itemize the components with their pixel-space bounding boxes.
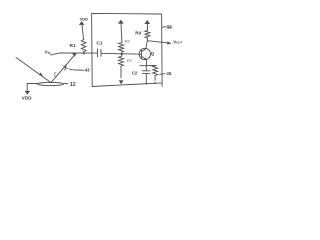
- tick marks on reflected ray (beam): [64, 64, 68, 70]
- transistor Q1 collector stroke: [142, 41, 148, 52]
- output label VOUT: [173, 39, 182, 44]
- svg-text:44: 44: [166, 25, 172, 31]
- svg-text:R3: R3: [127, 59, 132, 63]
- capacitor C2 (emitter bypass): [142, 66, 149, 84]
- power rail label VDD (bottom): [22, 96, 33, 101]
- svg-text:R2: R2: [125, 39, 130, 43]
- label 45: [166, 71, 171, 76]
- label C1: [96, 41, 102, 47]
- svg-text:43: 43: [85, 67, 91, 72]
- node junction dot at R1 bottom: [83, 52, 85, 54]
- svg-text:12: 12: [70, 82, 76, 88]
- VDD supply up-arrow (divider branch): [118, 20, 124, 43]
- output arrowhead: [167, 42, 171, 45]
- svg-text:VDD: VDD: [22, 96, 33, 101]
- svg-text:Vin: Vin: [45, 50, 51, 56]
- svg-text:E: E: [54, 71, 57, 76]
- label E (beam): [54, 71, 57, 76]
- svg-text:45: 45: [166, 71, 171, 76]
- transistor Q1 emitter stroke with arrow: [142, 56, 147, 60]
- leader to label 45: [160, 73, 165, 76]
- resistor R5 (emitter): [153, 66, 158, 81]
- node Vin label: [45, 50, 51, 56]
- label R1: [70, 43, 76, 49]
- svg-text:VDD: VDD: [80, 16, 89, 21]
- svg-text:C1: C1: [96, 41, 102, 47]
- label C2: [132, 71, 138, 76]
- power rail label VDD (top): [80, 16, 89, 21]
- optical element 12 (ellipse): [38, 82, 64, 85]
- svg-text:R1: R1: [70, 43, 76, 49]
- resistor R4 (collector load): [145, 30, 150, 40]
- leader to label 43: [70, 69, 84, 70]
- node junction dot divider/base: [121, 53, 123, 55]
- resistor R3 (lower divider): [119, 54, 124, 78]
- leader to label 44: [162, 26, 166, 29]
- node: C2 foot junction: [145, 83, 147, 85]
- capacitor C1 (coupling): [98, 49, 102, 57]
- lower supply down-arrow: [25, 91, 31, 95]
- wire: ellipse to lower supply: [27, 83, 38, 90]
- svg-text:VOUT: VOUT: [173, 39, 182, 44]
- wire: collector node to output: [147, 41, 168, 43]
- amplifier block box 44: [92, 13, 163, 86]
- label 44: [166, 25, 172, 31]
- transistor Q1 base bar: [141, 50, 143, 57]
- reflected ray toward bias line with arrowhead: [51, 53, 77, 83]
- node: R5 foot junction: [154, 82, 156, 84]
- svg-text:C2: C2: [132, 71, 138, 76]
- down-arrow to bottom rail: [119, 80, 124, 84]
- label Q: [151, 51, 155, 56]
- svg-text:R4: R4: [135, 31, 141, 36]
- label 43: [85, 67, 91, 72]
- wire: C1 to transistor base: [101, 52, 141, 55]
- VDD supply up-arrow: [79, 21, 85, 39]
- resistor R1 (bias resistor to VDD): [81, 40, 86, 54]
- wire: emitter down to bypass node: [140, 60, 156, 66]
- resistor R2 (upper divider): [119, 43, 124, 54]
- incident light ray arrow: [16, 58, 51, 83]
- label R4: [135, 31, 141, 36]
- transistor Q1 circle: [139, 48, 150, 59]
- label R2: [125, 39, 130, 43]
- label 12: [70, 82, 76, 88]
- VDD supply up-arrow (collector branch): [144, 20, 150, 30]
- wire: Vin line to coupling capacitor C1: [51, 53, 98, 55]
- label R3: [127, 59, 132, 63]
- leader to label 12: [64, 82, 68, 84]
